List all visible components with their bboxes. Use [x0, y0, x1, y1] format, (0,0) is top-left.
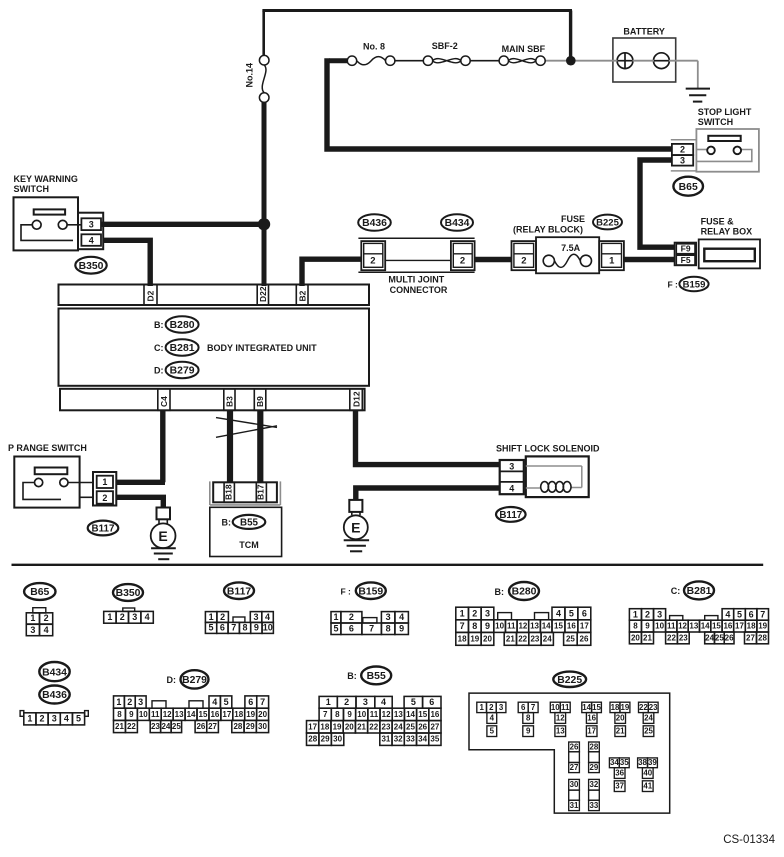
multi joint connector [358, 238, 474, 272]
svg-text:No.14: No.14 [245, 63, 255, 88]
svg-text:3: 3 [132, 612, 137, 622]
svg-text:7: 7 [531, 703, 536, 712]
svg-text:21: 21 [115, 722, 124, 731]
svg-text:28: 28 [233, 722, 242, 731]
svg-text:5: 5 [490, 727, 495, 736]
fuse No.8 label [363, 42, 385, 52]
svg-text:19: 19 [758, 622, 767, 631]
svg-text:31: 31 [381, 735, 390, 744]
svg-text:E: E [351, 520, 360, 536]
svg-text:B281: B281 [170, 343, 195, 354]
label B434 (pinout) [39, 662, 69, 681]
fuse No.8 [347, 56, 395, 65]
connector B65 pins 2/3 [671, 140, 696, 171]
svg-text:26: 26 [580, 634, 589, 643]
fuse MAIN SBF label [502, 44, 546, 54]
svg-text:38: 38 [638, 758, 647, 767]
svg-text:P RANGE SWITCH: P RANGE SWITCH [8, 443, 87, 453]
svg-text:6: 6 [582, 608, 587, 618]
svg-text:23: 23 [649, 703, 658, 712]
svg-text:B225: B225 [557, 675, 582, 686]
svg-text:25: 25 [172, 722, 181, 731]
fuse 7.5A (relay block) [536, 237, 599, 273]
svg-text:1: 1 [209, 612, 214, 622]
svg-text:MULTI JOINT: MULTI JOINT [388, 275, 444, 285]
svg-text:C:: C: [154, 343, 164, 353]
svg-text:1: 1 [30, 613, 35, 623]
svg-text:B436: B436 [362, 218, 387, 229]
wire: battery feed (grey) [575, 61, 698, 88]
svg-text:17: 17 [580, 622, 589, 631]
svg-text:B280: B280 [170, 320, 195, 331]
shift lock solenoid label [496, 443, 600, 453]
battery label [623, 27, 665, 37]
svg-text:STOP LIGHT: STOP LIGHT [698, 107, 752, 117]
svg-text:12: 12 [678, 622, 687, 631]
crossing mark (harness cross) [216, 418, 277, 438]
svg-text:B:: B: [154, 320, 164, 330]
svg-text:3: 3 [363, 697, 368, 707]
label B117 (pinout) [224, 582, 254, 599]
p range switch label [8, 443, 87, 453]
svg-text:4: 4 [556, 608, 561, 618]
svg-text:29: 29 [590, 763, 599, 772]
svg-text:8: 8 [472, 621, 477, 631]
svg-text:BATTERY: BATTERY [623, 27, 665, 37]
label B:B280 (pinout) [495, 582, 540, 600]
label B117 (p range) [88, 521, 119, 536]
svg-text:B117: B117 [499, 510, 522, 521]
svg-text:6: 6 [349, 624, 354, 634]
svg-text:4: 4 [44, 625, 49, 635]
svg-text:2: 2 [680, 145, 685, 155]
svg-text:8: 8 [633, 622, 638, 631]
svg-text:9: 9 [526, 727, 531, 736]
svg-text:27: 27 [570, 763, 579, 772]
svg-text:11: 11 [667, 622, 676, 631]
connector B65 pinout [26, 608, 52, 636]
svg-text:8: 8 [335, 710, 340, 719]
svg-text:15: 15 [712, 622, 721, 631]
stop light switch [696, 129, 759, 172]
BIU bottom connector strip [60, 389, 365, 411]
svg-text:5: 5 [224, 697, 229, 707]
svg-text:8: 8 [243, 623, 248, 633]
key warning switch label [14, 174, 78, 194]
multi joint connector label [388, 275, 448, 295]
svg-text:27: 27 [746, 633, 755, 642]
svg-text:2: 2 [44, 613, 49, 623]
label D:B279 (pinout) [167, 670, 209, 688]
svg-text:B436: B436 [42, 690, 67, 701]
svg-text:24: 24 [161, 722, 170, 731]
wire: fuse line SBF-2 to MAIN SBF [470, 60, 499, 62]
svg-text:29: 29 [321, 735, 330, 744]
connector F9/F5 [675, 243, 697, 266]
svg-text:35: 35 [430, 735, 439, 744]
svg-text:25: 25 [715, 633, 724, 642]
label B434 (top) [441, 214, 473, 231]
svg-text:CS-01334: CS-01334 [723, 834, 775, 846]
svg-text:3: 3 [485, 608, 490, 618]
wire: fuse No.14 to BIU pin D22 [262, 102, 267, 286]
svg-text:20: 20 [616, 713, 625, 722]
svg-text:5: 5 [209, 623, 214, 633]
svg-text:1: 1 [107, 612, 112, 622]
svg-text:20: 20 [631, 633, 640, 642]
svg-text:B117: B117 [227, 586, 251, 597]
svg-text:4: 4 [725, 609, 730, 619]
svg-text:10: 10 [139, 710, 148, 719]
connector B117 pins 3/4 (solenoid) [500, 460, 524, 494]
svg-text:12: 12 [556, 713, 565, 722]
svg-text:17: 17 [587, 727, 596, 736]
svg-text:24: 24 [394, 722, 403, 731]
svg-text:9: 9 [399, 624, 404, 634]
svg-text:31: 31 [570, 801, 579, 810]
svg-text:2: 2 [460, 255, 465, 266]
label B65 (switch) [673, 177, 703, 196]
svg-text:21: 21 [616, 727, 625, 736]
battery [613, 38, 676, 82]
svg-text:B117: B117 [92, 524, 115, 535]
fuse 7.5A connector pin 2 [512, 241, 537, 270]
svg-text:18: 18 [458, 634, 467, 643]
svg-text:B159: B159 [358, 586, 383, 597]
svg-text:B279: B279 [182, 675, 207, 686]
svg-text:F5: F5 [681, 255, 691, 265]
svg-text:2: 2 [40, 714, 45, 724]
svg-text:4: 4 [212, 697, 217, 707]
svg-text:18: 18 [611, 703, 620, 712]
wire: p range switch pin 2 to lamp E1 [116, 497, 163, 508]
svg-text:19: 19 [621, 703, 630, 712]
wire: top feed from battery junction to fuse No.14 [262, 11, 572, 58]
label C:B281 (pinout) [671, 581, 714, 599]
lamp E2 (body ground point) [344, 500, 368, 539]
svg-text:D:: D: [167, 675, 177, 685]
svg-text:4: 4 [490, 713, 495, 722]
svg-text:12: 12 [518, 622, 527, 631]
svg-text:3: 3 [680, 156, 685, 166]
fuse SBF-2 [423, 56, 470, 65]
svg-text:28: 28 [308, 735, 317, 744]
svg-text:1: 1 [633, 609, 638, 619]
svg-text:D12: D12 [351, 391, 361, 407]
svg-text:1: 1 [27, 714, 32, 724]
svg-text:7: 7 [260, 697, 265, 707]
wire: multi joint connector to fuse 7.5A [475, 257, 512, 262]
svg-text:40: 40 [643, 768, 652, 777]
svg-text:21: 21 [506, 634, 515, 643]
svg-text:2: 2 [344, 697, 349, 707]
label F:B159 (pinout) [341, 582, 386, 599]
svg-text:17: 17 [222, 710, 231, 719]
svg-text:9: 9 [254, 623, 259, 633]
svg-text:13: 13 [530, 622, 539, 631]
wire: p range switch pin 1 to BIU C4 [116, 480, 165, 485]
wire: BIU pin B3 to TCM B18 [227, 410, 233, 482]
svg-text:6: 6 [248, 697, 253, 707]
svg-text:B55: B55 [367, 671, 386, 682]
svg-text:(RELAY BLOCK): (RELAY BLOCK) [513, 225, 583, 235]
svg-text:29: 29 [246, 722, 255, 731]
svg-text:9: 9 [485, 621, 490, 631]
wire: fuse 7.5A to fuse box F5 [624, 257, 675, 262]
svg-text:14: 14 [406, 710, 415, 719]
svg-text:B:: B: [495, 587, 505, 597]
svg-text:4: 4 [399, 612, 404, 622]
svg-text:7: 7 [323, 710, 328, 719]
svg-text:22: 22 [127, 722, 136, 731]
drawing number CS-01334 [723, 834, 775, 846]
svg-text:9: 9 [645, 622, 650, 631]
svg-text:24: 24 [644, 713, 653, 722]
fuse No.14 [245, 55, 270, 102]
fuse SBF-2 label [432, 41, 458, 51]
svg-text:15: 15 [554, 622, 563, 631]
svg-text:14: 14 [582, 703, 591, 712]
svg-text:15: 15 [592, 703, 601, 712]
svg-text:28: 28 [590, 742, 599, 751]
svg-text:23: 23 [151, 722, 160, 731]
svg-text:SWITCH: SWITCH [698, 117, 734, 127]
svg-text:11: 11 [561, 703, 570, 712]
svg-text:1: 1 [102, 477, 107, 487]
svg-text:10: 10 [551, 703, 560, 712]
svg-text:10: 10 [357, 710, 366, 719]
body integrated unit [59, 309, 370, 386]
svg-text:21: 21 [643, 633, 652, 642]
svg-text:35: 35 [620, 758, 629, 767]
svg-text:4: 4 [509, 483, 514, 493]
svg-text:14: 14 [542, 622, 551, 631]
svg-text:11: 11 [151, 710, 160, 719]
stop light switch label [698, 107, 752, 127]
connector B350 pins 3/4 [78, 213, 103, 250]
svg-text:2: 2 [489, 703, 494, 712]
svg-text:2: 2 [521, 255, 526, 266]
wire: solenoid pin 4 to lamp E2 [356, 488, 500, 501]
key warning switch [14, 197, 82, 250]
wire: BIU pin C4 down [160, 410, 165, 482]
svg-text:B350: B350 [116, 588, 141, 599]
svg-text:B18: B18 [224, 484, 234, 500]
svg-text:23: 23 [679, 633, 688, 642]
svg-text:KEY WARNING: KEY WARNING [14, 174, 78, 184]
svg-text:5: 5 [411, 697, 416, 707]
svg-text:4: 4 [145, 612, 150, 622]
svg-text:13: 13 [556, 727, 565, 736]
label B117 (solenoid) [496, 507, 526, 522]
connector B281 pinout [629, 609, 768, 644]
svg-text:B2: B2 [298, 290, 308, 301]
wire: fuse line No.8 to SBF-2 [395, 60, 424, 62]
svg-text:30: 30 [333, 735, 342, 744]
svg-text:B350: B350 [79, 261, 104, 272]
svg-text:18: 18 [747, 622, 756, 631]
svg-text:CONNECTOR: CONNECTOR [390, 285, 448, 295]
svg-text:5: 5 [333, 624, 338, 634]
svg-text:5: 5 [737, 609, 742, 619]
wire: BIU pin D12 to solenoid pin 3 [356, 410, 501, 464]
svg-text:22: 22 [518, 634, 527, 643]
svg-text:26: 26 [418, 722, 427, 731]
svg-text:18: 18 [320, 722, 329, 731]
svg-text:2: 2 [120, 612, 125, 622]
svg-text:17: 17 [735, 622, 744, 631]
svg-text:F :: F : [341, 587, 352, 597]
svg-text:2: 2 [127, 697, 132, 707]
svg-text:37: 37 [615, 782, 624, 791]
connector B117 pinout [205, 612, 273, 634]
svg-text:30: 30 [258, 722, 267, 731]
svg-text:B17: B17 [256, 484, 266, 500]
connector B55 pinout [307, 696, 442, 745]
svg-text:FUSE &: FUSE & [701, 216, 735, 226]
svg-text:34: 34 [418, 735, 427, 744]
svg-text:26: 26 [725, 633, 734, 642]
svg-text:F9: F9 [681, 244, 691, 254]
svg-text:MAIN SBF: MAIN SBF [502, 44, 546, 54]
svg-text:20: 20 [345, 722, 354, 731]
ground (lamp E1) [151, 548, 176, 559]
label B:B55 (pinout) [347, 667, 391, 685]
svg-text:8: 8 [526, 713, 531, 722]
svg-text:3: 3 [657, 609, 662, 619]
wire: stop light switch pin 3 to fuse box F9 [640, 160, 675, 247]
label F:B159 (top) [668, 277, 709, 291]
ground (battery) [686, 89, 710, 102]
svg-text:D22: D22 [258, 286, 268, 302]
svg-text:6: 6 [521, 703, 526, 712]
svg-text:17: 17 [308, 722, 317, 731]
svg-text:27: 27 [208, 722, 217, 731]
connector B280 pinout [456, 607, 591, 645]
svg-text:6: 6 [429, 697, 434, 707]
svg-text:24: 24 [705, 633, 714, 642]
fuse MAIN SBF [499, 56, 545, 65]
svg-text:3: 3 [509, 461, 514, 471]
svg-text:19: 19 [333, 722, 342, 731]
svg-text:5: 5 [569, 608, 574, 618]
svg-text:2: 2 [472, 608, 477, 618]
svg-text:10: 10 [655, 622, 664, 631]
p range switch [14, 457, 93, 508]
svg-text:B434: B434 [445, 218, 470, 229]
svg-text:9: 9 [347, 710, 352, 719]
svg-text:F :: F : [668, 279, 679, 289]
svg-text:B279: B279 [170, 366, 195, 377]
label B436 (top) [358, 214, 391, 231]
svg-text:7: 7 [760, 609, 765, 619]
connector B117 pins 1/2 [93, 472, 116, 506]
svg-text:1: 1 [609, 255, 615, 266]
svg-text:SHIFT LOCK SOLENOID: SHIFT LOCK SOLENOID [496, 443, 600, 453]
svg-text:34: 34 [610, 758, 619, 767]
svg-text:RELAY BOX: RELAY BOX [701, 226, 753, 236]
svg-text:27: 27 [430, 722, 439, 731]
label B65 (pinout) [24, 583, 55, 600]
svg-text:7.5A: 7.5A [561, 243, 581, 253]
svg-text:33: 33 [406, 735, 415, 744]
lamp E1 (body ground point) [151, 508, 176, 549]
svg-text:SWITCH: SWITCH [14, 184, 50, 194]
svg-text:15: 15 [418, 710, 427, 719]
TCM [210, 507, 282, 556]
svg-text:B9: B9 [255, 396, 265, 407]
label B350 (pinout) [113, 584, 143, 601]
svg-text:13: 13 [689, 622, 698, 631]
svg-text:2: 2 [349, 612, 354, 622]
connector B350 pinout [104, 608, 154, 623]
svg-text:7: 7 [460, 621, 465, 631]
svg-text:3: 3 [138, 697, 143, 707]
svg-text:25: 25 [406, 722, 415, 731]
svg-text:4: 4 [64, 714, 69, 724]
svg-text:4: 4 [381, 697, 386, 707]
svg-text:3: 3 [52, 714, 57, 724]
svg-text:25: 25 [566, 634, 575, 643]
svg-text:TCM: TCM [239, 540, 259, 550]
svg-text:B281: B281 [687, 586, 712, 597]
svg-text:6: 6 [749, 609, 754, 619]
label B436 (pinout) [39, 686, 69, 704]
wire: grey segment after fuse MAIN SBF [545, 60, 566, 62]
svg-text:1: 1 [333, 612, 338, 622]
svg-text:2: 2 [370, 255, 375, 266]
svg-text:23: 23 [382, 722, 391, 731]
svg-text:7: 7 [231, 623, 236, 633]
svg-text:19: 19 [246, 710, 255, 719]
svg-text:3: 3 [30, 625, 35, 635]
svg-text:FUSE: FUSE [561, 214, 585, 224]
svg-text:8: 8 [386, 624, 391, 634]
svg-text:B280: B280 [512, 587, 537, 598]
wire: main feed to stop light switch pin 2 [327, 58, 673, 149]
svg-text:23: 23 [530, 634, 539, 643]
junction node B (battery feed) [566, 56, 576, 66]
svg-text:39: 39 [648, 758, 657, 767]
label B350 [75, 257, 106, 274]
svg-text:C:: C: [671, 586, 681, 596]
fuse & relay box [699, 239, 760, 268]
wire: key warning switch pin 4 to BIU pin D2 [103, 240, 150, 286]
svg-text:22: 22 [369, 722, 378, 731]
svg-text:B159: B159 [683, 279, 706, 290]
svg-text:11: 11 [507, 622, 516, 631]
svg-text:C4: C4 [159, 396, 169, 407]
svg-text:41: 41 [643, 782, 652, 791]
svg-text:B55: B55 [240, 517, 259, 528]
svg-text:32: 32 [590, 780, 599, 789]
svg-text:16: 16 [567, 622, 576, 631]
svg-text:36: 36 [615, 768, 624, 777]
wire: BIU pin B9 to TCM B17 [257, 410, 263, 482]
svg-text:33: 33 [590, 801, 599, 810]
wire: key warning switch pin 3 to junction A [101, 222, 264, 227]
svg-text:3: 3 [89, 220, 94, 230]
label B225 (pinout) [553, 672, 586, 687]
svg-text:21: 21 [357, 722, 366, 731]
svg-text:2: 2 [102, 493, 107, 503]
svg-text:1: 1 [479, 703, 484, 712]
svg-text:9: 9 [129, 710, 134, 719]
svg-text:24: 24 [543, 634, 552, 643]
svg-text:25: 25 [644, 727, 653, 736]
svg-text:8: 8 [117, 710, 122, 719]
svg-text:15: 15 [199, 710, 208, 719]
